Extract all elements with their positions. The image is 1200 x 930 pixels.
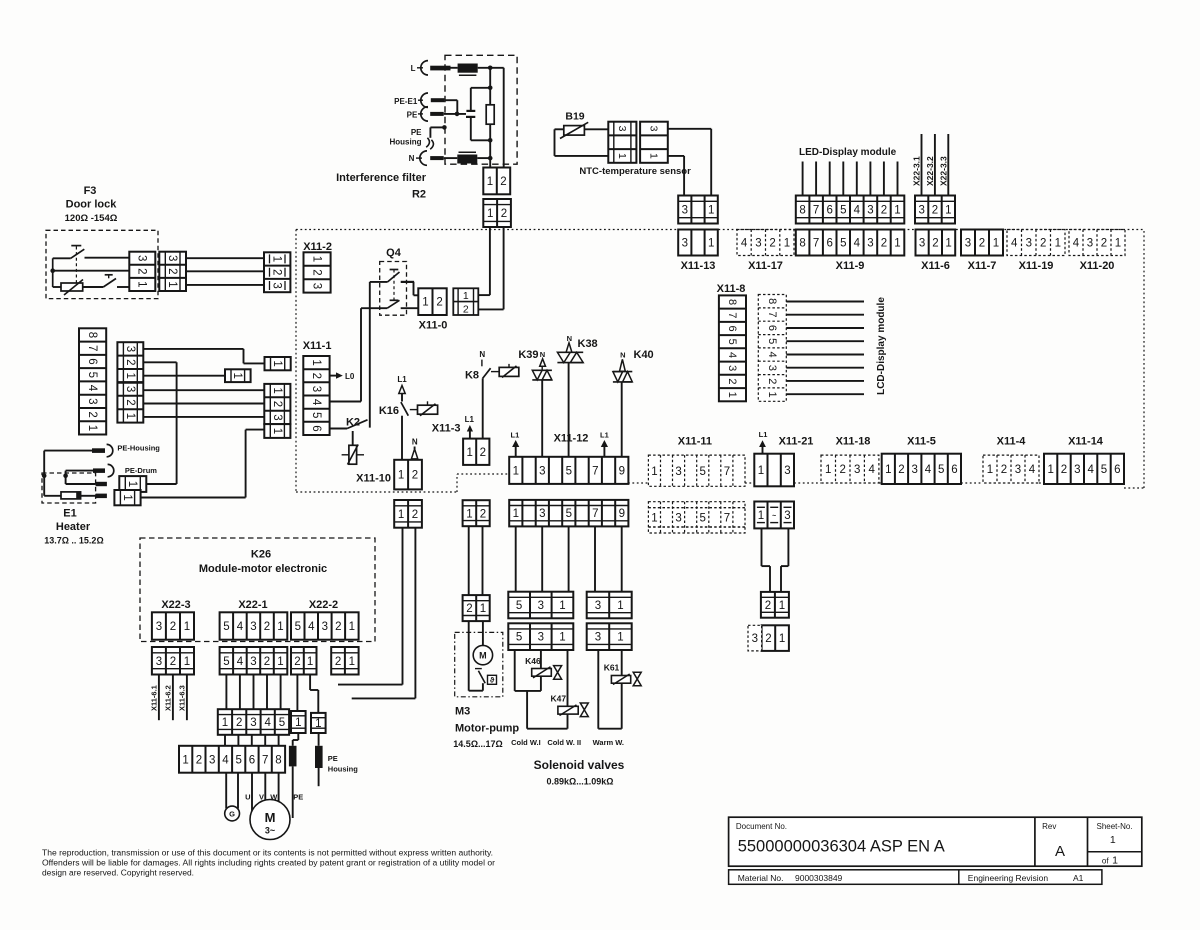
wire S1 to connector pin3 xyxy=(85,257,130,259)
svg-text:Motor-pump: Motor-pump xyxy=(455,723,519,735)
connector warm valve (3,1) xyxy=(587,592,632,619)
node N X11-10 xyxy=(411,438,418,459)
svg-text:3: 3 xyxy=(595,632,601,644)
label X11-7 xyxy=(968,260,997,272)
svg-text:2: 2 xyxy=(501,208,507,220)
svg-text:4: 4 xyxy=(86,385,98,392)
svg-text:2: 2 xyxy=(124,359,136,365)
wire X11-12 pin5 down xyxy=(568,526,570,591)
connector X11-17 (dashed) xyxy=(737,230,794,256)
terminal PE-Drum xyxy=(66,464,158,476)
connector X11-4 (dashed) xyxy=(983,455,1039,483)
svg-text:8: 8 xyxy=(766,298,778,304)
svg-text:1: 1 xyxy=(124,413,136,419)
connector mate X11-1 pin6 (1) xyxy=(264,424,290,438)
label X22-2 xyxy=(309,599,338,611)
svg-text:2: 2 xyxy=(335,621,341,633)
svg-text:5: 5 xyxy=(840,238,846,250)
wire NTC pin1 to X11-13 xyxy=(668,156,684,196)
svg-text:PE-E1: PE-E1 xyxy=(394,97,418,106)
svg-text:L1: L1 xyxy=(397,375,407,384)
ferrite PE xyxy=(289,746,297,767)
wire S2 to pin1 xyxy=(117,286,129,288)
svg-text:3: 3 xyxy=(784,510,790,522)
svg-text:5: 5 xyxy=(726,339,738,345)
wire K61 loop xyxy=(598,650,621,729)
svg-text:3: 3 xyxy=(919,238,925,250)
node L0 tap xyxy=(330,372,355,381)
wire valve cell5 down xyxy=(515,650,541,691)
labels X11-6.1 X11-6.2 X11-6.3 xyxy=(149,685,186,711)
svg-text:3: 3 xyxy=(648,126,660,132)
svg-text:1: 1 xyxy=(271,387,283,393)
svg-text:1: 1 xyxy=(1055,238,1061,250)
svg-text:1: 1 xyxy=(1047,464,1053,476)
svg-text:2: 2 xyxy=(765,633,771,645)
svg-text:3: 3 xyxy=(766,365,778,371)
connector X11-14 xyxy=(1044,454,1124,484)
svg-text:K38: K38 xyxy=(578,338,598,350)
label X22-3 xyxy=(161,599,190,611)
label K47 xyxy=(551,694,567,704)
svg-text:5: 5 xyxy=(223,621,229,633)
svg-text:X11-13: X11-13 xyxy=(681,260,716,272)
label Q4 xyxy=(386,247,402,259)
svg-text:1: 1 xyxy=(136,281,148,287)
connector X11-13 module half xyxy=(678,196,718,224)
svg-text:6: 6 xyxy=(726,325,738,331)
label Cold W.I xyxy=(511,738,541,747)
wires to tacho G xyxy=(226,773,238,809)
wire X11-12 pin9 down xyxy=(621,526,623,591)
label LCD-Display module (rotated) xyxy=(876,297,887,395)
svg-text:X11-3: X11-3 xyxy=(432,423,461,435)
svg-text:A: A xyxy=(1055,843,1065,860)
label X11-6 xyxy=(921,260,950,272)
svg-text:Rev: Rev xyxy=(1042,822,1056,831)
F3 door-lock enclosure (dashed) xyxy=(46,230,158,298)
wires LED-display module to X11-9 xyxy=(803,162,898,196)
connector X11-5 xyxy=(882,454,961,484)
svg-text:X22-3.1: X22-3.1 xyxy=(912,156,922,186)
svg-text:4: 4 xyxy=(1073,238,1080,250)
svg-text:X11-6.2: X11-6.2 xyxy=(163,685,172,711)
svg-text:1: 1 xyxy=(758,510,764,522)
svg-text:M3: M3 xyxy=(455,706,470,718)
material row frame xyxy=(729,870,1102,885)
svg-text:2: 2 xyxy=(881,205,887,217)
label X11-3 xyxy=(432,423,461,435)
svg-text:2: 2 xyxy=(412,470,418,482)
valve K61 xyxy=(633,672,641,686)
svg-text:6: 6 xyxy=(766,325,778,331)
wire PE to capacitor xyxy=(444,112,466,117)
svg-text:X11-1: X11-1 xyxy=(303,340,332,352)
svg-text:K39: K39 xyxy=(518,349,538,361)
resistor E1 heater xyxy=(61,492,81,499)
svg-text:L1: L1 xyxy=(465,415,475,424)
svg-text:8: 8 xyxy=(86,332,98,338)
wire X11-1 pin6 to K2 xyxy=(330,428,348,430)
svg-text:of: of xyxy=(1102,857,1109,866)
document number xyxy=(738,838,945,856)
label K46 xyxy=(525,656,541,666)
svg-text:3: 3 xyxy=(538,600,544,612)
svg-text:13.7Ω .. 15.2Ω: 13.7Ω .. 15.2Ω xyxy=(44,536,103,546)
svg-text:6: 6 xyxy=(826,238,832,250)
svg-text:3: 3 xyxy=(1087,238,1093,250)
svg-text:3: 3 xyxy=(310,386,322,392)
svg-text:PE: PE xyxy=(293,793,303,802)
label K16 xyxy=(379,405,399,417)
svg-text:2: 2 xyxy=(170,621,176,633)
label R2 xyxy=(412,189,426,201)
connector valves mating (5,3,1) xyxy=(508,623,573,650)
wire Q4 upper to K2 xyxy=(369,282,371,428)
wire L to inductor xyxy=(451,67,458,69)
svg-text:3: 3 xyxy=(271,282,283,288)
svg-text:3: 3 xyxy=(250,621,256,633)
svg-text:X11-20: X11-20 xyxy=(1080,260,1115,272)
svg-text:4: 4 xyxy=(1087,464,1094,476)
svg-text:7: 7 xyxy=(86,345,98,351)
sheet of 1 xyxy=(1102,855,1118,867)
connector (3,2,1) partial dashed xyxy=(748,625,789,651)
svg-text:N: N xyxy=(412,438,418,447)
svg-text:2: 2 xyxy=(264,656,270,668)
label X11-10 xyxy=(356,473,391,485)
label Warm W. xyxy=(593,738,624,747)
svg-text:X22-3: X22-3 xyxy=(161,599,190,611)
svg-text:1: 1 xyxy=(945,205,951,217)
connector motor input (1,2,3,4,5) xyxy=(218,709,289,735)
label X11-14 xyxy=(1068,436,1104,448)
svg-text:7: 7 xyxy=(813,238,819,250)
wire motor V xyxy=(259,773,265,802)
valve coil K46 xyxy=(532,667,552,678)
svg-text:X22-3.2: X22-3.2 xyxy=(925,156,935,186)
svg-text:2: 2 xyxy=(311,269,323,275)
node N K40 xyxy=(620,351,626,372)
svg-text:7: 7 xyxy=(592,508,598,520)
svg-text:NTC-temperature sensor: NTC-temperature sensor xyxy=(579,166,691,177)
connector PE (1) xyxy=(291,711,306,733)
svg-text:X11-9: X11-9 xyxy=(836,260,865,272)
svg-text:6: 6 xyxy=(249,754,255,766)
svg-text:9: 9 xyxy=(619,508,625,520)
wire M3 left leg xyxy=(468,621,470,691)
svg-text:PE: PE xyxy=(407,110,418,119)
wire PE-housing node xyxy=(42,451,47,479)
switch M3 thermal xyxy=(475,669,497,685)
svg-text:Cold W. II: Cold W. II xyxy=(547,738,581,747)
label PE Housing xyxy=(390,128,423,146)
connector X11-21 xyxy=(754,454,794,487)
svg-text:Module-motor electronic: Module-motor electronic xyxy=(199,563,327,575)
label Cold W.II xyxy=(547,738,581,747)
svg-text:5: 5 xyxy=(223,656,229,668)
svg-text:3: 3 xyxy=(124,386,136,392)
label PE Housing xyxy=(328,754,358,774)
wire PE-drum node xyxy=(63,471,68,479)
svg-text:3: 3 xyxy=(682,205,688,217)
svg-text:5: 5 xyxy=(840,205,846,217)
svg-text:8: 8 xyxy=(275,754,281,766)
terminal L xyxy=(411,61,451,75)
svg-text:3: 3 xyxy=(166,255,178,261)
label X11-5 xyxy=(907,436,936,448)
svg-text:4: 4 xyxy=(1011,238,1018,250)
svg-text:2: 2 xyxy=(86,411,98,417)
svg-text:3: 3 xyxy=(539,465,545,477)
svg-text:1: 1 xyxy=(271,360,283,366)
svg-text:1: 1 xyxy=(766,392,778,398)
svg-text:6: 6 xyxy=(951,464,957,476)
svg-text:3: 3 xyxy=(755,238,761,250)
svg-text:Door lock: Door lock xyxy=(66,199,118,211)
wire F3 junction to pin2 xyxy=(53,270,130,272)
svg-text:X11-6.1: X11-6.1 xyxy=(149,685,158,711)
rev A xyxy=(1055,843,1065,860)
svg-text:Interference filter: Interference filter xyxy=(336,172,427,184)
svg-text:3: 3 xyxy=(911,464,917,476)
node N K8 xyxy=(479,350,485,366)
svg-text:5: 5 xyxy=(699,512,705,524)
svg-text:X11-0: X11-0 xyxy=(419,320,448,332)
svg-text:X11-8: X11-8 xyxy=(717,283,746,295)
svg-text:L0: L0 xyxy=(345,372,355,381)
svg-text:N: N xyxy=(479,350,485,359)
wire stack pin1b xyxy=(143,416,264,418)
connector X22-3 mating xyxy=(152,647,194,675)
svg-text:2: 2 xyxy=(932,205,938,217)
svg-text:3: 3 xyxy=(539,508,545,520)
connector X11-12 xyxy=(509,457,628,484)
wire F3 to X11-2 pin2 xyxy=(186,270,264,272)
connector heater upper (1) xyxy=(119,476,146,492)
wire motor W xyxy=(270,773,278,802)
svg-text:1: 1 xyxy=(1112,855,1118,867)
svg-text:Heater: Heater xyxy=(56,521,91,533)
copyright text xyxy=(42,849,495,878)
svg-text:6: 6 xyxy=(310,425,322,431)
svg-text:B19: B19 xyxy=(565,111,584,123)
wire X11-12 pin1 down xyxy=(515,526,517,591)
svg-text:2: 2 xyxy=(170,656,176,668)
svg-text:1: 1 xyxy=(480,603,486,615)
svg-text:3: 3 xyxy=(867,205,873,217)
connector mate X11-1 pin1 (1) xyxy=(265,357,291,370)
svg-text:3: 3 xyxy=(538,632,544,644)
svg-text:1: 1 xyxy=(184,656,190,668)
svg-text:1: 1 xyxy=(708,205,714,217)
svg-text:L1: L1 xyxy=(600,431,609,440)
svg-text:3: 3 xyxy=(616,126,628,132)
label NTC-temperature sensor xyxy=(579,166,691,177)
svg-text:X11-5: X11-5 xyxy=(907,436,936,448)
connector F3 mating (3,2,1) xyxy=(159,252,186,291)
connector valves (5,3,1) xyxy=(508,592,573,619)
svg-text:X11-18: X11-18 xyxy=(836,436,871,448)
svg-text:1: 1 xyxy=(894,238,900,250)
connector X11-2 (1,2,3) xyxy=(304,252,331,292)
resistor R2 bleeder xyxy=(486,105,494,124)
svg-text:X11-4: X11-4 xyxy=(997,436,1027,448)
svg-text:3: 3 xyxy=(726,365,738,371)
svg-text:1: 1 xyxy=(559,600,565,612)
svg-text:1: 1 xyxy=(315,718,321,730)
wire PE-E1 down to PE xyxy=(444,100,457,114)
svg-text:1: 1 xyxy=(648,153,660,159)
svg-text:4: 4 xyxy=(726,352,738,358)
svg-text:4: 4 xyxy=(237,621,244,633)
svg-text:2: 2 xyxy=(196,754,202,766)
label Material No. xyxy=(738,873,843,883)
wire M3 bottom xyxy=(469,683,483,691)
connector (2,1) xyxy=(761,592,789,618)
svg-text:N: N xyxy=(620,351,625,360)
svg-text:F3: F3 xyxy=(84,185,97,197)
label X11-21 xyxy=(779,436,814,448)
svg-text:2: 2 xyxy=(765,600,771,612)
wire X22-2A pin1 down xyxy=(310,675,318,713)
svg-text:2: 2 xyxy=(726,378,738,384)
wire stack pin3b xyxy=(143,389,264,391)
valve coil K61 xyxy=(611,674,630,685)
svg-text:3: 3 xyxy=(595,600,601,612)
svg-text:1: 1 xyxy=(617,600,623,612)
wire NTC pin3 to X11-13 xyxy=(668,129,711,196)
svg-text:5: 5 xyxy=(86,372,98,378)
wires X22-3.1 X22-3.2 X22-3.3 xyxy=(912,134,949,196)
connector F3 (3,2,1) xyxy=(129,252,155,291)
svg-text:1: 1 xyxy=(758,465,764,477)
connector X11-21 mating xyxy=(754,502,794,529)
svg-text:2: 2 xyxy=(1101,238,1107,250)
label solenoid resistance xyxy=(547,777,614,787)
svg-text:1: 1 xyxy=(651,512,657,524)
switch S1 door contact xyxy=(71,246,85,284)
svg-text:2: 2 xyxy=(264,621,270,633)
wire X11-21 pin1 down xyxy=(762,528,771,592)
wire Q4 lower to X11-1 pin4 xyxy=(330,308,361,401)
wire R2 pin2 to X11-0 mating xyxy=(478,227,503,309)
svg-text:7: 7 xyxy=(724,466,730,478)
heater E1 enclosure (dashed) xyxy=(42,473,96,503)
svg-text:Document No.: Document No. xyxy=(736,822,787,831)
svg-text:K46: K46 xyxy=(525,656,541,666)
svg-text:1: 1 xyxy=(651,466,657,478)
svg-text:4: 4 xyxy=(308,621,315,633)
svg-text:3: 3 xyxy=(250,656,256,668)
svg-text:1: 1 xyxy=(466,447,472,459)
svg-text:4: 4 xyxy=(854,205,861,217)
wire F3 junction to thermistor xyxy=(53,286,61,288)
label Document No. xyxy=(736,822,787,831)
node F3 junction xyxy=(50,258,55,287)
svg-text:1: 1 xyxy=(398,509,404,521)
triac K16 xyxy=(410,401,438,416)
connector X11-7 xyxy=(961,230,1003,256)
connector X11-3 (1,2) xyxy=(463,439,489,465)
svg-text:8: 8 xyxy=(726,299,738,305)
svg-text:2: 2 xyxy=(769,238,775,250)
wire heater to terminal xyxy=(81,495,96,497)
svg-text:5: 5 xyxy=(566,465,572,477)
svg-text:1: 1 xyxy=(779,600,785,612)
svg-text:PE-Drum: PE-Drum xyxy=(125,466,157,475)
switch K2 xyxy=(347,420,367,429)
svg-text:LCD-Display module: LCD-Display module xyxy=(876,297,887,395)
label X11-4 xyxy=(997,436,1027,448)
svg-text:2: 2 xyxy=(480,508,486,520)
label K8 xyxy=(465,370,479,382)
wire K8 to X11-3 pin2 xyxy=(482,378,484,438)
connector X11-9 xyxy=(796,230,905,256)
switch K16 xyxy=(401,402,408,416)
connector X22-3 module half xyxy=(915,196,955,224)
svg-text:2: 2 xyxy=(466,603,472,615)
svg-text:1: 1 xyxy=(987,464,993,476)
wire stack pin2b xyxy=(143,403,264,405)
svg-text:1: 1 xyxy=(271,256,283,262)
ground PE-housing xyxy=(426,138,433,149)
connector X11-18 (dashed) xyxy=(821,455,879,483)
svg-text:U: U xyxy=(245,793,250,802)
svg-text:14.5Ω...17Ω: 14.5Ω...17Ω xyxy=(453,739,502,749)
svg-text:5: 5 xyxy=(766,338,778,344)
svg-text:1: 1 xyxy=(885,464,891,476)
node N K38 xyxy=(566,334,572,352)
motor M3 pump xyxy=(473,645,492,664)
svg-text:1: 1 xyxy=(487,176,493,188)
svg-text:L: L xyxy=(411,64,416,73)
svg-text:1: 1 xyxy=(1115,238,1121,250)
switch Q4 upper contact xyxy=(370,270,419,296)
svg-text:X11-6: X11-6 xyxy=(921,260,950,272)
svg-text:8: 8 xyxy=(799,205,805,217)
label Interference filter xyxy=(336,172,427,184)
svg-text:PE-Housing: PE-Housing xyxy=(117,444,160,453)
connector mate X11-1 pins3-5 (1,2,3) xyxy=(264,384,290,424)
svg-text:120Ω -154Ω: 120Ω -154Ω xyxy=(65,213,118,224)
svg-text:X11-21: X11-21 xyxy=(779,436,814,448)
label X11-9 xyxy=(836,260,865,272)
svg-text:1: 1 xyxy=(126,481,138,487)
connector 8-pin (8..1) xyxy=(79,328,106,434)
svg-text:3: 3 xyxy=(1015,464,1021,476)
wire X11-21 pin3 down xyxy=(781,528,788,592)
svg-text:1: 1 xyxy=(307,656,313,668)
svg-text:7: 7 xyxy=(766,311,778,317)
svg-text:4: 4 xyxy=(868,464,875,476)
svg-text:~: ~ xyxy=(772,513,776,520)
switch Q4 lower contact xyxy=(361,300,418,308)
svg-text:1: 1 xyxy=(311,256,323,262)
svg-text:3: 3 xyxy=(784,465,790,477)
connector X22-3 (3,2,1) xyxy=(152,612,194,639)
svg-text:2: 2 xyxy=(463,304,469,316)
label PE motor xyxy=(293,793,303,802)
connector X22-1 mating xyxy=(220,647,288,675)
label Engineering Revision xyxy=(968,873,1084,883)
svg-text:2: 2 xyxy=(932,238,938,250)
connector PE housing (1) xyxy=(311,713,326,733)
terminal bar heater lower xyxy=(96,494,107,499)
svg-text:3: 3 xyxy=(156,621,162,633)
svg-text:5: 5 xyxy=(235,754,241,766)
svg-text:4: 4 xyxy=(766,352,778,358)
